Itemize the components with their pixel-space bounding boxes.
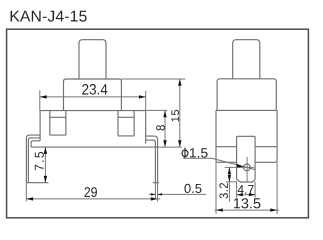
pin vertical center line	[246, 157, 248, 182]
bracket top line	[31, 146, 158, 148]
arrow 29 right	[151, 197, 158, 200]
right view cap base	[217, 79, 276, 111]
arrow 3.2 up	[228, 167, 231, 174]
terminal pin	[237, 136, 256, 182]
arrow 15 down	[178, 140, 181, 147]
label phi15	[190, 148, 208, 157]
bracket right foot	[153, 182, 159, 184]
label 7.5	[35, 152, 44, 170]
dim 23.4 line	[40, 96, 146, 98]
arrow 4.7 right	[249, 193, 255, 196]
hole horizontal center line	[225, 166, 254, 168]
label 15	[171, 110, 179, 122]
label 4.7	[238, 185, 254, 194]
dim 4.7 extension lines	[237, 182, 256, 198]
bracket left foot	[26, 182, 48, 184]
arrow 29 left	[26, 197, 33, 200]
label 8	[156, 125, 165, 130]
arrow 13.5 left	[216, 208, 223, 211]
dim 8 extension top	[147, 109, 168, 111]
dim 15 extension top	[121, 78, 185, 80]
dim 29 line	[26, 198, 160, 200]
left view cap base	[64, 79, 122, 111]
arrow phi1.5 leader	[237, 164, 244, 168]
left view body left edge	[39, 111, 41, 141]
dim 7.5 line	[44, 147, 46, 183]
right view body jog line	[216, 146, 277, 148]
arrow 23.4 left	[40, 95, 47, 98]
left tab window	[50, 111, 66, 136]
pin bottom extension	[226, 181, 237, 183]
leader 0.5	[149, 193, 206, 195]
arrow 4.7 left	[237, 193, 243, 196]
right view body outline	[216, 110, 277, 162]
dim 13.5 extension lines	[216, 162, 277, 214]
label 13.5	[234, 198, 260, 208]
right tab window	[118, 111, 134, 136]
arrow 7.5 down	[44, 176, 47, 183]
label 0.5	[184, 184, 201, 193]
arrow 8 up	[163, 110, 166, 117]
arrow 23.4 right	[139, 95, 146, 98]
dim 4.7 line	[237, 194, 256, 196]
bracket top extension	[158, 146, 182, 148]
arrow 13.5 right	[270, 208, 277, 211]
dim 23.4 extension lines	[40, 90, 146, 110]
bracket left ear	[26, 135, 40, 183]
right view button	[233, 40, 260, 79]
arrow 3.2 down	[228, 175, 231, 182]
dim 3.2 line	[228, 167, 230, 201]
arrow 0.5 right	[158, 193, 163, 195]
drawing frame	[7, 29, 309, 218]
leader phi 1.5	[183, 158, 255, 169]
left view button	[79, 40, 106, 79]
dim 29 extension lines	[26, 183, 157, 202]
left view body top edge	[40, 110, 146, 112]
arrow 8 down	[163, 140, 166, 147]
arrow 0.5 left	[151, 193, 156, 195]
label title	[11, 11, 87, 22]
pin hole	[244, 164, 251, 171]
label 23.4	[82, 84, 107, 95]
arrow 15 up	[178, 79, 181, 86]
dim 13.5 line	[215, 209, 279, 211]
label 3.2	[219, 183, 228, 198]
arrow 7.5 up	[44, 147, 47, 154]
phi symbol	[182, 148, 188, 159]
dim 15 line	[179, 79, 181, 147]
left view body right edge	[145, 111, 147, 144]
bracket right ear	[146, 136, 158, 183]
dim 8 line	[164, 110, 166, 147]
label 29	[85, 187, 97, 197]
